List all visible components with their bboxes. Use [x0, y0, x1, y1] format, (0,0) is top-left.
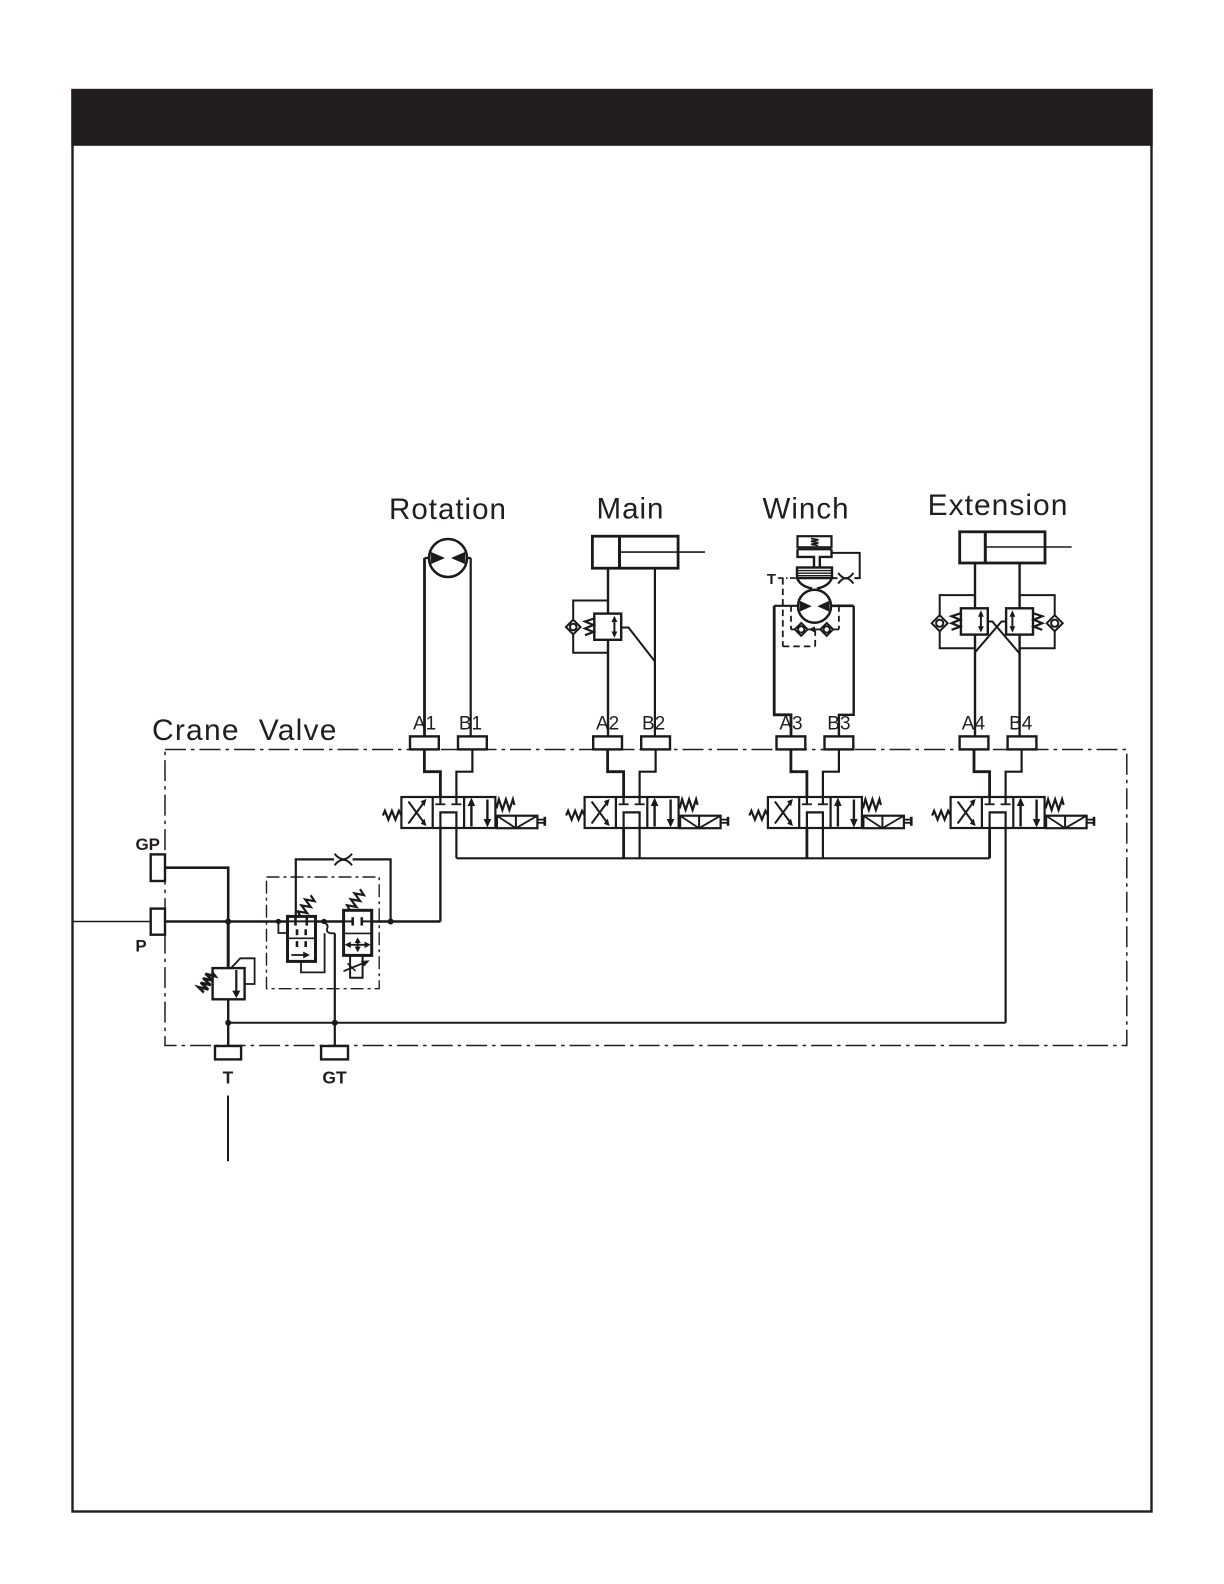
pilot wire of CB1: [621, 628, 655, 662]
wire rotation pipe A1: [423, 558, 426, 736]
svg-text:B4: B4: [1009, 714, 1033, 735]
wire P gallery: [165, 920, 440, 922]
junction P-pilot: [276, 919, 281, 924]
directional valve V2 (main section): [566, 797, 728, 828]
extension cylinder C2: [960, 532, 1072, 563]
wire relief to tank gallery: [227, 999, 229, 1046]
LS hook wire: [324, 923, 335, 934]
stroke limiter under CV2: [344, 955, 370, 977]
section label Main: [597, 493, 665, 526]
counterbalance valve CB3 (extension head side): [1006, 608, 1042, 634]
wire extension pipe A4: [974, 563, 976, 736]
wire GT riser: [334, 933, 336, 1046]
label A2: [596, 714, 619, 735]
label A4: [962, 714, 986, 735]
svg-text:GP: GP: [135, 835, 160, 854]
counterbalance valve CB2 (extension rod side): [952, 608, 988, 634]
svg-text:Extension: Extension: [928, 489, 1069, 522]
check bypass loop of CB3: [1020, 595, 1055, 648]
svg-text:GT: GT: [322, 1068, 347, 1088]
junction P-LS: [321, 919, 326, 924]
directional valve V1 (rotation section): [383, 797, 545, 828]
throttle orifice on bypass: [334, 854, 353, 866]
wire GP link to P gallery: [165, 868, 228, 922]
wire brake drain dash-dot: [778, 577, 797, 579]
label A1: [413, 714, 436, 735]
crane valve enclosure (dash-dot boundary): [165, 750, 1127, 1046]
svg-text:Main: Main: [597, 493, 665, 526]
section label Rotation: [389, 493, 507, 526]
svg-text:A4: A4: [962, 714, 986, 735]
label A3: [779, 714, 802, 735]
wire B3 to V3: [823, 749, 839, 797]
spring of CV2: [346, 888, 366, 912]
junction T gallery: [225, 1020, 231, 1026]
throttle on brake pilot: [837, 573, 854, 584]
relief valve RV1: [197, 958, 254, 999]
main cylinder C1: [592, 536, 705, 568]
shuttle pilot dashes right: [833, 606, 839, 630]
compensator detail enclosure (dash-dot): [267, 877, 380, 989]
wire rotation pipe B1: [470, 558, 472, 736]
wire B1 to V1: [456, 749, 472, 797]
label P: [135, 937, 146, 956]
label B2: [642, 714, 665, 735]
junction P-relief: [225, 919, 231, 925]
svg-text:P: P: [135, 937, 146, 956]
junction GT gallery: [332, 1020, 338, 1026]
wire A3 to V3: [791, 749, 807, 797]
port T: [215, 1046, 241, 1059]
check valve of CB1: [566, 620, 581, 635]
wire V3 drops to rail: [807, 828, 823, 858]
wire V1 to carry-over rail: [455, 828, 457, 858]
label B1: [459, 714, 482, 735]
port B1: [458, 736, 487, 749]
section label Winch: [763, 493, 850, 526]
shuttle check K2: [820, 623, 833, 636]
wire B4 to V4: [1006, 749, 1022, 797]
label B3: [827, 714, 850, 735]
junction P-bypass: [388, 919, 394, 925]
svg-text:B2: B2: [642, 714, 665, 735]
counterbalance valve CB1 (main): [585, 614, 621, 640]
compensator valve CV2: [344, 910, 372, 955]
wire V4 return to tank gallery: [1004, 828, 1006, 1023]
wire V4 drop to rail: [988, 828, 991, 858]
svg-text:Crane Valve: Crane Valve: [152, 714, 338, 747]
rotation motor M1: [425, 539, 471, 577]
pilot loop under CV1: [301, 933, 325, 972]
spring of CV1: [296, 894, 316, 918]
port GT: [321, 1046, 348, 1059]
winch brake BK1: [797, 536, 832, 588]
svg-text:T: T: [767, 571, 776, 588]
shuttle pilot dashes left: [791, 606, 795, 630]
directional valve V4 (extension section): [932, 797, 1094, 828]
svg-text:Winch: Winch: [763, 493, 850, 526]
port GP: [151, 854, 165, 881]
wire main pipe A2: [607, 568, 609, 736]
check valve of CB3: [1047, 615, 1063, 631]
check bypass loop of counterbalance CB1: [573, 601, 608, 653]
port A3: [777, 736, 806, 749]
label GP: [135, 835, 160, 854]
wire main pipe B2: [654, 568, 656, 736]
svg-text:Rotation: Rotation: [389, 493, 507, 526]
port P: [151, 909, 165, 935]
shuttle link wire: [808, 626, 821, 632]
pilot wire of CB2: [988, 622, 1020, 654]
wire V1 feed from P gallery: [439, 828, 441, 922]
port B4: [1008, 736, 1037, 749]
pilot wire to CV1 left: [278, 921, 287, 933]
port A4: [960, 736, 989, 749]
winch motor M2: [774, 590, 854, 623]
compensator valve CV1: [288, 916, 316, 961]
wire bypass loop over compensator: [296, 859, 391, 921]
label T (brake drain): [767, 571, 776, 588]
section label Extension: [928, 489, 1069, 522]
carry-over rail wire: [456, 857, 989, 859]
port B3: [825, 736, 854, 749]
brake pilot loop wire: [832, 553, 860, 578]
port A1: [410, 736, 439, 749]
label B4: [1009, 714, 1033, 735]
pilot wire of CB3: [975, 622, 1006, 653]
check valve of CB2: [932, 615, 948, 631]
wire A2 to V2: [608, 749, 624, 797]
wire winch pipe A3: [774, 606, 791, 737]
pilot drain dashed loop: [783, 578, 815, 646]
wire extension pipe B4: [1018, 563, 1020, 736]
label GT: [322, 1068, 347, 1088]
wire A1 to V1: [424, 749, 440, 797]
directional valve V3 (winch section): [749, 797, 911, 828]
wire tank line: [227, 1096, 229, 1162]
wire winch pipe B3: [839, 606, 854, 737]
wire relief feed: [227, 922, 230, 969]
wire P supply from page edge: [72, 921, 151, 923]
port A2: [593, 736, 622, 749]
wire B2 to V2: [640, 749, 656, 797]
label T: [223, 1068, 234, 1088]
page border frame: [73, 90, 1152, 1512]
wire A4 to V4: [974, 749, 990, 797]
port B2: [641, 736, 670, 749]
header title bar: [71, 90, 1152, 146]
check bypass loop of CB2: [940, 595, 975, 648]
shuttle check K1: [795, 623, 808, 636]
crane valve enclosure label: [152, 714, 338, 747]
svg-text:T: T: [223, 1068, 234, 1088]
wire V2 drops to rail: [624, 828, 640, 858]
tank gallery wire: [228, 1022, 1005, 1024]
